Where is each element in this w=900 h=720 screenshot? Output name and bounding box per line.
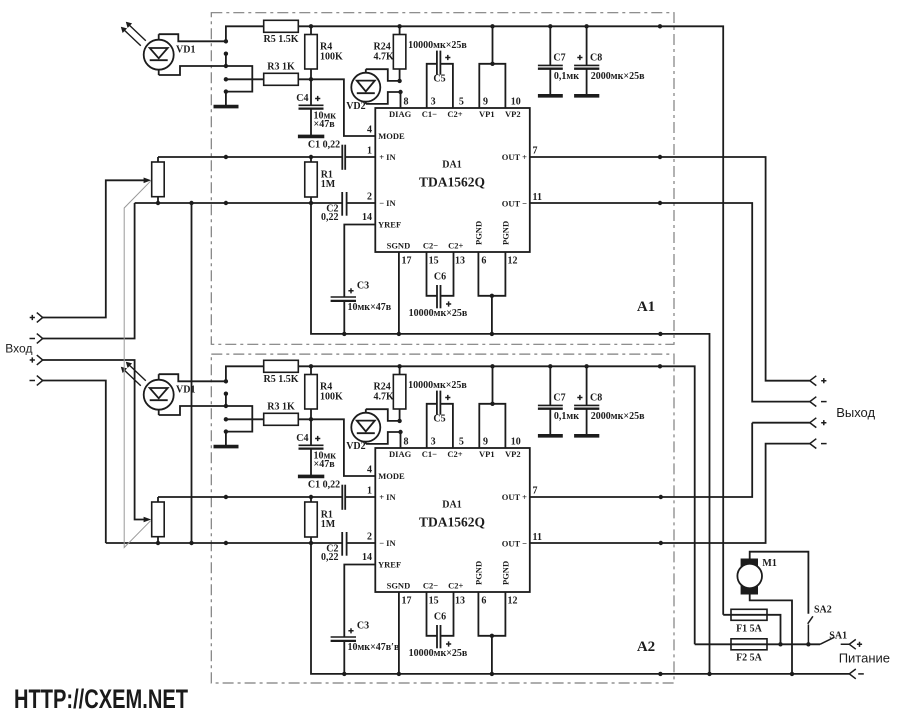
wire A1 ground rail <box>311 203 710 674</box>
label output 1 + <box>821 378 826 383</box>
label power - <box>858 673 864 675</box>
svg-text:VP2: VP2 <box>505 449 521 459</box>
node A2 +IN junctions <box>224 495 313 499</box>
svg-text:14: 14 <box>362 212 372 223</box>
svg-text:YREF: YREF <box>378 219 401 229</box>
svg-text:6: 6 <box>481 256 486 267</box>
node A2 R4 bottom junction <box>309 417 313 421</box>
svg-text:+ IN: + IN <box>379 152 396 162</box>
terminal input 1 (+) <box>37 313 43 323</box>
svg-text:100K: 100K <box>320 52 343 63</box>
wire A1 R3 input <box>226 78 264 80</box>
pin numbers bottom row (A1) <box>402 256 518 267</box>
svg-text:− IN: − IN <box>379 538 396 548</box>
wire A1 R24 stubs <box>399 26 401 81</box>
svg-text:11: 11 <box>533 192 542 203</box>
svg-text:C1 0,22: C1 0,22 <box>308 139 340 150</box>
svg-text:R5 1.5K: R5 1.5K <box>264 34 299 45</box>
wire A1 module pin stub <box>225 54 227 66</box>
svg-text:C4: C4 <box>296 93 308 104</box>
svg-text:R3 1K: R3 1K <box>267 401 295 412</box>
svg-text:2000мк×25в: 2000мк×25в <box>591 71 645 82</box>
svg-text:C7: C7 <box>553 53 565 64</box>
resistor R1 (A2) <box>305 502 318 537</box>
svg-text:C3: C3 <box>357 621 369 632</box>
wire A2 OUT+ to output 3 <box>530 423 810 497</box>
svg-text:C3: C3 <box>357 281 369 292</box>
svg-text:2: 2 <box>367 192 372 203</box>
svg-text:10000мк×25в: 10000мк×25в <box>408 380 467 391</box>
wire A2 ground rail <box>311 543 849 674</box>
pin names right (A2) <box>502 492 527 549</box>
LED VD1 (A1) <box>121 22 174 75</box>
svg-text:10мк×47в: 10мк×47в <box>348 302 392 313</box>
capacitor C4 (A2) <box>299 419 324 475</box>
svg-text:OUT +: OUT + <box>502 492 527 502</box>
node + rail junctions <box>778 642 810 646</box>
capacitor C7 (A1) <box>538 26 563 94</box>
node A1 OUT- module pin <box>658 201 662 205</box>
wire A1 YREF to C3 <box>344 225 375 298</box>
amplifier module A1 dashed enclosure <box>211 13 674 345</box>
svg-text:9: 9 <box>483 97 488 108</box>
pin numbers right (A2) <box>533 485 542 543</box>
resistor R4 (A1) <box>305 35 318 70</box>
svg-text:10000мк×25в: 10000мк×25в <box>408 40 467 51</box>
resistor R4 (A2) <box>305 375 318 410</box>
label input 1 + <box>30 315 35 320</box>
wire M1 to - rail <box>750 595 792 674</box>
capacitor C2 (A2) <box>342 532 346 556</box>
wire + power rail through F2 <box>695 643 820 645</box>
resistor R24 (A1) <box>393 35 406 70</box>
wire A1 VD1 anode to supply <box>159 34 226 41</box>
svg-text:5: 5 <box>459 437 464 448</box>
svg-text:0,22: 0,22 <box>321 552 339 563</box>
svg-text:9: 9 <box>483 437 488 448</box>
capacitor C5 (A1) <box>437 51 441 75</box>
svg-text:10: 10 <box>511 97 521 108</box>
svg-text:10000мк×25в: 10000мк×25в <box>409 308 468 319</box>
svg-text:OUT +: OUT + <box>502 152 527 162</box>
labels C7 0,1мк / C8 2000мк×25в (A2) <box>553 393 645 422</box>
svg-text:PGND: PGND <box>501 221 511 245</box>
label output 3 + <box>821 420 826 425</box>
svg-text:VD2: VD2 <box>346 101 365 112</box>
resistor R1 (A1) <box>305 162 318 197</box>
svg-text:C8: C8 <box>590 53 602 64</box>
LED VD2 (A1) <box>351 69 380 104</box>
svg-text:8: 8 <box>404 437 409 448</box>
svg-text:PGND: PGND <box>474 221 484 245</box>
svg-text:PGND: PGND <box>501 561 511 585</box>
svg-text:SA2: SA2 <box>814 605 832 616</box>
svg-text:PGND: PGND <box>474 561 484 585</box>
wire A2 R3 input <box>226 418 264 420</box>
svg-text:C8: C8 <box>590 393 602 404</box>
node A1 ground rail junctions <box>342 332 663 336</box>
svg-text:C5: C5 <box>433 74 445 85</box>
svg-text:14: 14 <box>362 552 372 563</box>
svg-text:15: 15 <box>429 596 439 607</box>
wire A2 +supply rail <box>226 366 695 644</box>
svg-text:+ IN: + IN <box>379 492 396 502</box>
op-amp IC DA1 TDA1562Q (A1) <box>375 108 530 252</box>
wire F1 row (A1 supply to fuse F1) <box>723 615 780 645</box>
wire A1 OUT+ to output 1 <box>530 157 810 381</box>
terminal input 2 (-) <box>37 334 43 344</box>
svg-text:TDA1562Q: TDA1562Q <box>419 515 485 530</box>
wire A2 VD2 cathode to DIAG pin 8 <box>366 432 401 448</box>
node A1 module pins (left column) <box>224 39 228 94</box>
svg-text:VP1: VP1 <box>479 109 495 119</box>
ground bar A2 (LED network) <box>214 445 239 449</box>
node A1 VD2/R24 junctions <box>397 79 402 95</box>
wire A1 R1 stubs <box>310 157 312 203</box>
svg-text:SGND: SGND <box>387 241 411 251</box>
amplifier module A2 dashed enclosure <box>211 354 674 683</box>
node A2 OUT+ module pin <box>659 495 663 499</box>
wire A2 R3 output / MODE <box>298 419 375 476</box>
svg-text:M1: M1 <box>762 558 776 569</box>
capacitor C1 (A2) <box>342 485 345 510</box>
node A1 VP bracket junction <box>490 62 494 66</box>
svg-text:TDA1562Q: TDA1562Q <box>419 175 485 190</box>
svg-text:VD1: VD1 <box>176 385 195 396</box>
svg-text:×47в: ×47в <box>314 459 336 470</box>
switch SA1 <box>820 637 849 644</box>
wire A2 R1 stubs <box>310 497 312 543</box>
wire A1 -IN row <box>135 202 376 204</box>
wire A1 R3 output / MODE <box>298 79 375 136</box>
svg-text:1: 1 <box>367 486 372 497</box>
capacitor C7 (A2) <box>538 366 563 434</box>
svg-text:A1: A1 <box>637 299 655 315</box>
node link junctions <box>189 201 193 545</box>
pin numbers bottom row (A2) <box>402 596 518 607</box>
svg-text:×47в: ×47в <box>314 119 336 130</box>
pin names left (A1) <box>378 131 405 229</box>
node A2 module pins (left column) <box>224 379 228 434</box>
terminal power + <box>849 639 856 649</box>
potentiometer R* volume (A1) <box>152 162 165 197</box>
pin numbers top row (A2) <box>404 437 521 448</box>
svg-text:2000мк×25в: 2000мк×25в <box>591 411 645 422</box>
svg-text:4.7K: 4.7K <box>374 52 395 63</box>
svg-text:C2+: C2+ <box>448 581 463 591</box>
pin names top row (A2) <box>389 449 521 459</box>
node A2 supply rail junctions <box>309 364 662 368</box>
node A1 supply rail junctions <box>309 24 662 28</box>
pin numbers right (A1) <box>533 145 542 203</box>
pin names left (A2) <box>378 471 405 569</box>
pin names top row (A1) <box>389 109 521 119</box>
svg-text:C2+: C2+ <box>448 241 463 251</box>
wire A1 VD2 anode to R24 <box>366 69 400 81</box>
svg-text:VD2: VD2 <box>346 441 365 452</box>
svg-text:C6: C6 <box>434 271 446 282</box>
svg-text:0,1мк: 0,1мк <box>554 71 579 82</box>
wire A1 +supply rail <box>226 26 723 615</box>
svg-text:C1 0,22: C1 0,22 <box>308 479 340 490</box>
svg-text:1M: 1M <box>321 519 336 530</box>
svg-text:1: 1 <box>367 146 372 157</box>
node - rail junctions <box>707 672 711 676</box>
svg-text:C6: C6 <box>434 611 446 622</box>
label input 2 - <box>30 338 36 340</box>
svg-text:11: 11 <box>533 532 542 543</box>
svg-text:Питание: Питание <box>839 650 890 665</box>
op-amp IC DA1 TDA1562Q (A2) <box>375 448 530 592</box>
wire pot wiper link (thin) <box>124 181 150 547</box>
node A2 PGND bracket junction <box>490 634 494 638</box>
svg-text:15: 15 <box>429 256 439 267</box>
svg-text:C4: C4 <box>296 433 308 444</box>
wire A2 VD1 cathode / R3 feed bracket <box>159 406 253 446</box>
ground bar A2 (C8) <box>574 434 599 438</box>
svg-text:A2: A2 <box>637 639 655 655</box>
svg-text:C2−: C2− <box>423 581 438 591</box>
svg-text:C1−: C1− <box>422 449 437 459</box>
svg-text:10000мк×25в: 10000мк×25в <box>409 648 468 659</box>
wire A2 pin 15/13 bracket with C6 <box>427 592 454 636</box>
ground bar A1 (C7) <box>538 94 563 98</box>
wire A1 VD2 cathode to DIAG pin 8 <box>366 92 401 108</box>
capacitor C2 (A1) <box>342 192 346 216</box>
capacitor C6 (A1) <box>437 285 441 308</box>
resistor R3 (A1) <box>264 73 299 85</box>
wire A2 pin 3/5 bracket with C5 <box>427 404 453 448</box>
svg-text:VP2: VP2 <box>505 109 521 119</box>
node A1 OUT+ module pin <box>658 155 662 159</box>
svg-text:DIAG: DIAG <box>389 449 412 459</box>
svg-text:0,22: 0,22 <box>321 212 339 223</box>
svg-text:17: 17 <box>402 596 412 607</box>
wire A1 VD1 cathode / R3 feed bracket <box>159 66 253 106</box>
svg-text:7: 7 <box>533 485 538 496</box>
wire input 1 to A1 pot wiper <box>43 180 145 317</box>
wire A2 SGND pin 17 to ground <box>398 592 400 674</box>
terminal output 2 (-) <box>810 397 817 407</box>
capacitor C5 (A2) <box>437 391 441 415</box>
label C3 (A2) <box>348 628 353 633</box>
node A1 R4 bottom junction <box>309 77 313 81</box>
svg-text:SGND: SGND <box>387 581 411 591</box>
node A2 ground rail junctions <box>342 672 663 676</box>
label output 4 - <box>821 443 827 445</box>
LED VD2 (A2) <box>351 409 380 444</box>
resistor R5 (A2) <box>264 360 299 372</box>
wire A1 PGND pins 6/12 to ground <box>478 252 505 334</box>
capacitor C1 (A1) <box>342 145 345 170</box>
node A2 OUT- module pin <box>659 541 663 545</box>
terminal power - <box>849 669 856 679</box>
svg-text:C1−: C1− <box>422 109 437 119</box>
terminal input 3 (+) <box>37 355 43 365</box>
wire A2 YREF to C3 <box>344 565 375 638</box>
svg-text:6: 6 <box>481 596 486 607</box>
node M1 ground junction <box>790 672 794 676</box>
svg-text:4: 4 <box>367 124 372 135</box>
capacitor C3 (A2) <box>331 637 356 674</box>
wire A2 -IN row <box>106 542 376 544</box>
motor M1 (fan) <box>737 559 762 595</box>
svg-text:10: 10 <box>511 437 521 448</box>
svg-text:100K: 100K <box>320 392 343 403</box>
resistor R5 (A1) <box>264 20 299 32</box>
svg-text:3: 3 <box>431 97 436 108</box>
svg-text:8: 8 <box>404 97 409 108</box>
wire A2 R4 stubs <box>310 366 312 419</box>
svg-text:HTTP://CXEM.NET: HTTP://CXEM.NET <box>14 684 188 714</box>
svg-text:0,1мк: 0,1мк <box>554 411 579 422</box>
pin numbers left (A1) <box>362 124 372 223</box>
terminal output 3 (+) <box>810 418 817 428</box>
resistor R3 (A2) <box>264 413 299 425</box>
capacitor C6 (A2) <box>437 625 441 648</box>
pin numbers top row (A1) <box>404 97 521 108</box>
svg-text:DA1: DA1 <box>442 500 461 511</box>
capacitor C8 (A1) <box>574 26 599 94</box>
wire A2 VD1 anode to supply <box>159 374 226 381</box>
svg-text:C2+: C2+ <box>447 449 462 459</box>
node A2 VP bracket junction <box>490 402 494 406</box>
labels C7 0,1мк / C8 2000мк×25в (A1) <box>553 53 645 82</box>
wire M1 to SA2 <box>750 552 809 614</box>
svg-text:12: 12 <box>508 596 518 607</box>
svg-text:F1 5A: F1 5A <box>736 623 763 634</box>
svg-text:OUT −: OUT − <box>502 199 527 209</box>
svg-text:Вход: Вход <box>5 341 32 355</box>
wire A1 volume pot stubs <box>157 157 159 203</box>
terminal output 4 (-) <box>810 439 817 449</box>
svg-text:OUT −: OUT − <box>502 539 527 549</box>
terminal output 1 (+) <box>810 376 817 386</box>
svg-text:7: 7 <box>533 145 538 156</box>
ground bar A1 (LED network) <box>214 105 239 109</box>
wire A2 PGND pins 6/12 to ground <box>478 592 505 674</box>
ground bar A1 (C4) <box>298 135 324 139</box>
fuse F1 5A <box>731 609 767 620</box>
svg-text:MODE: MODE <box>378 131 405 141</box>
LED VD1 (A2) <box>121 362 174 415</box>
svg-text:DA1: DA1 <box>442 160 461 171</box>
svg-text:10мк×47вʹв: 10мк×47вʹв <box>348 642 400 653</box>
wire A2 OUT- to output 4 <box>530 444 810 543</box>
wire A2 volume pot stubs <box>157 497 159 543</box>
svg-text:17: 17 <box>402 256 412 267</box>
wire A2 VD2 anode to R24 <box>366 409 400 421</box>
wire A1 VP1/VP2 bracket to supply <box>479 26 505 108</box>
wire A2 +IN row <box>158 496 375 498</box>
node A1 +IN junctions <box>224 155 313 159</box>
svg-text:13: 13 <box>455 256 465 267</box>
label power + <box>857 642 862 647</box>
svg-text:13: 13 <box>455 596 465 607</box>
svg-text:C2+: C2+ <box>447 109 462 119</box>
wire A1 R4 stubs <box>310 26 312 79</box>
ground bar A1 (C8) <box>574 94 599 98</box>
node A1 -IN junctions <box>156 201 313 205</box>
wire A2 module pin stub <box>225 394 227 406</box>
pin names bottom row (A2) <box>387 561 511 591</box>
svg-text:SA1: SA1 <box>829 631 847 642</box>
wire A1 +IN row <box>158 156 375 158</box>
svg-text:12: 12 <box>508 256 518 267</box>
switch SA2 <box>808 616 813 644</box>
wire input 3 to A2 pot wiper <box>43 360 145 520</box>
resistor R24 (A2) <box>393 375 406 410</box>
label input 4 - <box>30 380 36 382</box>
pin names bottom row (A1) <box>387 221 511 251</box>
svg-text:R3 1K: R3 1K <box>267 61 295 72</box>
terminal input 4 (-) <box>37 376 43 386</box>
label input 3 + <box>30 357 35 362</box>
svg-text:MODE: MODE <box>378 471 405 481</box>
wiper arrow A1 pot <box>144 178 152 184</box>
capacitor C8 (A2) <box>574 366 599 434</box>
capacitor C4 (A1) <box>299 79 324 135</box>
wire input 4 to A2 -IN rail <box>43 381 106 544</box>
ground bar A2 (C7) <box>538 434 563 438</box>
svg-text:R5 1.5K: R5 1.5K <box>264 374 299 385</box>
svg-text:C7: C7 <box>553 393 565 404</box>
svg-text:4: 4 <box>367 464 372 475</box>
label C3 (A1) <box>348 288 353 293</box>
wire A1 pin 15/13 bracket with C6 <box>427 252 454 296</box>
svg-text:F2 5A: F2 5A <box>736 652 763 663</box>
wiper arrow A2 pot <box>144 517 152 523</box>
svg-text:5: 5 <box>459 97 464 108</box>
svg-text:DIAG: DIAG <box>389 109 412 119</box>
wire A2 VP1/VP2 bracket to supply <box>479 366 505 448</box>
node A2 VD2/R24 junctions <box>397 419 402 435</box>
svg-text:C5: C5 <box>433 414 445 425</box>
wire A1 pin 3/5 bracket with C5 <box>427 64 453 108</box>
capacitor C3 (A1) <box>331 297 356 334</box>
node A2 -IN junctions <box>156 541 313 545</box>
svg-text:− IN: − IN <box>379 198 396 208</box>
pin numbers left (A2) <box>362 464 372 563</box>
svg-text:2: 2 <box>367 532 372 543</box>
svg-text:C2−: C2− <box>423 241 438 251</box>
wire link A1 -IN to A2 -IN <box>191 203 193 543</box>
svg-text:VP1: VP1 <box>479 449 495 459</box>
wire input 2 to A1 -IN rail <box>43 203 135 339</box>
svg-text:YREF: YREF <box>378 559 401 569</box>
potentiometer R* volume (A2) <box>152 502 165 537</box>
svg-text:VD1: VD1 <box>176 45 195 56</box>
svg-text:4.7K: 4.7K <box>374 392 395 403</box>
ground bar A2 (C4) <box>298 475 324 479</box>
svg-text:1M: 1M <box>321 179 336 190</box>
wire A1 OUT- to output 2 <box>530 203 810 402</box>
svg-text:Выход: Выход <box>836 405 875 420</box>
pin names right (A1) <box>502 152 527 209</box>
svg-text:3: 3 <box>431 437 436 448</box>
wire A1 SGND pin 17 to ground <box>398 252 400 334</box>
fuse F2 5A <box>731 639 767 650</box>
label output 2 - <box>821 401 827 403</box>
wire A2 R24 stubs <box>399 366 401 421</box>
node A1 PGND bracket junction <box>490 294 494 298</box>
